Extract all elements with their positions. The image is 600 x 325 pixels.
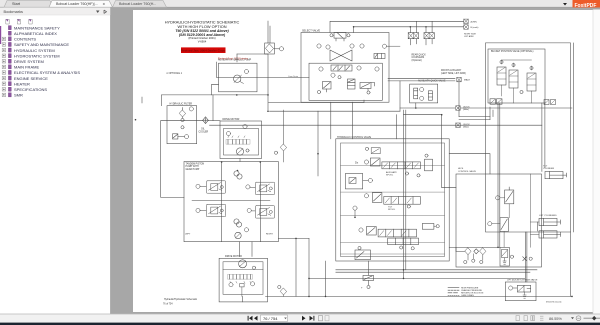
auxiliary spool xyxy=(382,162,421,169)
title block xyxy=(165,20,240,44)
svg-text:RIGHT SIDE: RIGHT SIDE xyxy=(464,33,476,35)
svg-text:(LEFT SIDE, LIFT ARM): (LEFT SIDE, LIFT ARM) xyxy=(441,72,466,75)
charge pump top xyxy=(234,171,239,176)
lift spool xyxy=(378,229,416,237)
rear quick coupler block 2 xyxy=(424,21,434,45)
right side lift arm couplers xyxy=(464,19,468,23)
bpv spool 2 xyxy=(509,70,518,88)
auxiliary hydraulic pump box xyxy=(219,63,258,92)
document background xyxy=(111,8,600,315)
pump circle P1 xyxy=(234,75,241,82)
gauges lower select xyxy=(319,67,323,71)
tilt spool label xyxy=(388,207,396,212)
svg-text:(Male): (Male) xyxy=(463,109,469,111)
svg-text:SAFETY AND MAINTENANCE: SAFETY AND MAINTENANCE xyxy=(14,42,69,47)
svg-text:GEAR PUMP: GEAR PUMP xyxy=(186,168,200,171)
svg-text:Bobcat Loader T60(HF)|...: Bobcat Loader T60(HF)|... xyxy=(56,2,98,6)
right icons xyxy=(516,316,543,321)
svg-text:FRONT AUXILIARY: FRONT AUXILIARY xyxy=(441,69,462,72)
wire top mid horizontal xyxy=(270,110,401,112)
tandem pump divider xyxy=(192,200,270,202)
svg-text:(Male): (Male) xyxy=(463,126,469,128)
select valve outer box xyxy=(301,33,389,103)
hcv bottom-left valve xyxy=(355,250,370,260)
drive motor gauges xyxy=(226,131,230,135)
wire pump out drop xyxy=(295,238,297,296)
lift spool right box xyxy=(422,224,434,230)
wire cooler junction vertical xyxy=(212,95,214,121)
gauge at top filter xyxy=(279,47,283,51)
coupler boxes top right xyxy=(544,100,556,105)
svg-text:AUXILIARY HYDRAULIC PUMP: AUXILIARY HYDRAULIC PUMP xyxy=(218,59,252,62)
svg-text:(Printed October 2001): (Printed October 2001) xyxy=(188,36,215,40)
svg-text:AUXILIARY QUICK VALVE: AUXILIARY QUICK VALVE xyxy=(418,79,446,82)
wire front aux pair xyxy=(388,77,455,79)
return filter bottom xyxy=(280,288,286,295)
hcv pilot gauge xyxy=(353,206,357,210)
hcv internal gallery lines xyxy=(341,165,445,254)
svg-text:TILT: TILT xyxy=(543,165,548,167)
svg-text:MAINTENANCE SAFETY: MAINTENANCE SAFETY xyxy=(14,25,60,30)
solenoid valve top xyxy=(330,33,350,42)
wire lower distribution xyxy=(309,277,525,279)
relief valve left xyxy=(317,82,331,94)
nav: first page xyxy=(248,316,258,321)
tilt cylinder label xyxy=(543,165,554,170)
dark bottom strip xyxy=(0,323,600,325)
svg-text:TANDEM PISTON: TANDEM PISTON xyxy=(186,162,205,165)
svg-text:Revised Jan. 2004 Dealer Copy: Revised Jan. 2004 Dealer Copy xyxy=(181,49,226,53)
wire hics left drop xyxy=(404,115,457,188)
selected-tool purple strip xyxy=(0,26,1,44)
svg-text:PUMP WITH: PUMP WITH xyxy=(186,166,199,168)
wire filter L return xyxy=(161,121,184,198)
svg-text:6904173 (10-01): 6904173 (10-01) xyxy=(546,301,562,303)
drive motor valve bank xyxy=(226,136,250,144)
drive motor circle xyxy=(236,148,243,155)
svg-text:AUXILIARY: AUXILIARY xyxy=(386,171,397,174)
charge relief valve xyxy=(500,247,509,266)
svg-text:REAR QUICK: REAR QUICK xyxy=(412,53,427,56)
hydrostatic filter symbol top xyxy=(265,43,275,54)
drive motor top box xyxy=(220,121,262,159)
red revision box xyxy=(181,47,226,53)
svg-text:COUPLERS: COUPLERS xyxy=(412,57,425,59)
hcv inner border xyxy=(341,143,445,257)
drive motor top inner box xyxy=(224,129,259,156)
drive motor bottom inner xyxy=(223,262,263,295)
wire bucket valve feeds xyxy=(497,103,499,247)
bucket position valve box xyxy=(488,49,545,103)
drive motor bottom box xyxy=(219,258,267,302)
svg-text:B (male): B (male) xyxy=(471,27,479,29)
svg-text:SELECT VALVE: SELECT VALVE xyxy=(302,29,320,32)
svg-text:CYLINDER: CYLINDER xyxy=(543,168,554,170)
tilt spool left actuator xyxy=(372,193,382,203)
bottom solenoid valve xyxy=(363,275,374,280)
svg-text:Start: Start xyxy=(12,2,21,6)
svg-text:LIFT (BUCKET) BYPASS VALVE: LIFT (BUCKET) BYPASS VALVE xyxy=(507,279,538,282)
svg-text:ALPHABETICAL INDEX: ALPHABETICAL INDEX xyxy=(14,31,57,36)
svg-text:HICS: HICS xyxy=(458,168,464,170)
wire top lift arm coupler A xyxy=(330,21,464,32)
check valve diamond small xyxy=(474,249,479,254)
pilot valve center xyxy=(348,79,356,89)
hcv top solenoid xyxy=(371,148,380,154)
bookmark items xyxy=(2,25,80,97)
gauges in select valve xyxy=(317,44,321,48)
tilt spool xyxy=(384,197,421,205)
bpv internal wires xyxy=(502,60,532,103)
select valve right spool xyxy=(374,54,385,59)
wire aux pump riser xyxy=(267,21,269,43)
svg-text:HYDRAULIC SYSTEM: HYDRAULIC SYSTEM xyxy=(14,48,55,53)
svg-text:V-6904: V-6904 xyxy=(198,40,207,44)
svg-text:LEFT: LEFT xyxy=(185,233,191,235)
wire right couplers horizontal xyxy=(210,124,542,126)
wire top lift arm coupler B xyxy=(354,27,464,33)
svg-text:SPECIFICATIONS: SPECIFICATIONS xyxy=(14,87,47,92)
tandem pump outer box xyxy=(184,162,278,242)
tab Bobcat 2 xyxy=(113,1,167,8)
svg-text:Bookmarks: Bookmarks xyxy=(4,9,24,14)
svg-text:ELECTRICAL SYSTEM & ANALYSIS: ELECTRICAL SYSTEM & ANALYSIS xyxy=(14,70,80,75)
svg-text:ENGINE SERVICE: ENGINE SERVICE xyxy=(14,76,48,81)
wire drive motor drop xyxy=(239,159,241,162)
svg-text:HEATER: HEATER xyxy=(14,81,30,86)
bypass valve body xyxy=(517,285,530,292)
front auxiliary label xyxy=(441,69,466,75)
wire lift bypass verticals xyxy=(524,232,526,282)
svg-text:76 of 754: 76 of 754 xyxy=(163,304,173,306)
wire pump column verticals xyxy=(221,162,223,242)
aux quick valve spool xyxy=(414,88,418,99)
check assembly wires xyxy=(449,247,500,260)
hydraulic control valve box xyxy=(336,139,449,261)
logo dropdown arrow xyxy=(563,3,567,6)
hydraulic filter box xyxy=(167,106,197,144)
tilt cylinder xyxy=(545,172,567,179)
hics valve 1 xyxy=(505,190,514,204)
svg-text:76 / 754: 76 / 754 xyxy=(263,316,278,321)
gauges bottom motor xyxy=(229,283,233,287)
lift cylinder 2 xyxy=(539,231,561,238)
aux quick valve spool 2 xyxy=(428,91,432,100)
right boundary box xyxy=(486,43,571,232)
FoxitPDF orange logo xyxy=(573,0,600,10)
svg-text:MAIN FRAME: MAIN FRAME xyxy=(14,65,39,70)
panel toolbar icons xyxy=(6,19,32,24)
bypass valve gauge xyxy=(509,286,513,290)
tab Start xyxy=(4,1,53,8)
wire hics link xyxy=(449,154,490,174)
footer text xyxy=(163,298,198,305)
rear quick couplers label xyxy=(412,53,427,61)
svg-text:(S/N 5129 20001 and Above): (S/N 5129 20001 and Above) xyxy=(179,33,226,37)
svg-text:Case Drain: Case Drain xyxy=(288,76,298,78)
check diamond right of motor xyxy=(280,144,286,151)
svg-text:LIFT ARM: LIFT ARM xyxy=(464,35,474,38)
wire hcv bottom verticals xyxy=(308,238,310,296)
male coupler front aux xyxy=(457,77,461,81)
svg-text:LIFT CYLINDERS: LIFT CYLINDERS xyxy=(539,215,557,217)
svg-text:×: × xyxy=(103,1,106,6)
wire pump out short xyxy=(269,102,365,104)
svg-text:CASE DRAIN: CASE DRAIN xyxy=(461,294,474,297)
oil cooler xyxy=(203,117,209,124)
svg-text:SPOOL: SPOOL xyxy=(388,209,396,211)
main wires xyxy=(142,21,573,302)
svg-text:✦ OPTIONAL 1: ✦ OPTIONAL 1 xyxy=(166,72,183,75)
rear quick coupler block 1 xyxy=(408,21,418,45)
white page xyxy=(133,10,593,312)
wire right border lower xyxy=(570,232,572,296)
select valve inner box xyxy=(309,63,382,100)
svg-text:CHARGE PRESSURE: CHARGE PRESSURE xyxy=(461,289,483,292)
bpv bottom boxes xyxy=(490,99,496,104)
legend text xyxy=(461,287,484,297)
wire filter feed xyxy=(141,97,143,103)
svg-text:DRIVE SYSTEM: DRIVE SYSTEM xyxy=(14,59,44,64)
wire select-to-hcv verticals xyxy=(330,102,332,139)
motor circle bottom xyxy=(239,260,247,268)
valve bank bottom xyxy=(228,275,253,284)
hics valve 2 xyxy=(500,218,508,232)
tab bar xyxy=(0,0,600,8)
hics internal wires xyxy=(504,174,539,247)
wire mid drop xyxy=(317,111,319,176)
svg-text:MALE: MALE xyxy=(464,79,470,82)
page num box xyxy=(261,315,288,321)
crossover lines xyxy=(330,50,352,61)
filter bypass box xyxy=(173,134,178,139)
relief valve right xyxy=(360,83,375,95)
svg-text:86.55%: 86.55% xyxy=(549,317,563,321)
svg-text:SMR: SMR xyxy=(14,93,23,98)
svg-text:Hydraulic/Hydrostatic Schemati: Hydraulic/Hydrostatic Schematic xyxy=(164,298,198,301)
auxiliary spool left box xyxy=(370,158,380,166)
gauge in aux pump box xyxy=(244,69,248,73)
aux quick valve gauges xyxy=(420,87,424,91)
wire aux pump jog xyxy=(211,85,218,95)
shuttle bottom motor xyxy=(240,284,244,287)
svg-text:COOLER: COOLER xyxy=(199,131,209,133)
check valve diamond 3 xyxy=(480,248,486,255)
svg-text:CONTROL VALVE: CONTROL VALVE xyxy=(458,170,476,173)
bpv spool 1 xyxy=(497,67,506,85)
bpv spool 3 xyxy=(527,73,536,91)
male coupler mid column 1 xyxy=(456,106,460,110)
panel header xyxy=(0,8,110,16)
right scroll strip xyxy=(593,10,600,315)
wire bottom drop links xyxy=(368,261,370,275)
filter diamond xyxy=(179,110,185,117)
wire lift cylinder stub xyxy=(536,222,538,231)
wire pump case line xyxy=(278,237,309,239)
svg-text:RIGHT: RIGHT xyxy=(266,233,273,235)
orifice symbol xyxy=(523,257,527,261)
spool valve select xyxy=(331,65,352,71)
svg-text:A (RH): A (RH) xyxy=(471,20,478,23)
hics control valve label xyxy=(458,168,476,173)
svg-text:(Optional): (Optional) xyxy=(412,59,422,62)
svg-text:Bobcat Loader T60(H...: Bobcat Loader T60(H... xyxy=(119,2,156,6)
pump unit 2 xyxy=(255,182,274,194)
svg-text:DRIVE MOTOR: DRIVE MOTOR xyxy=(225,255,242,258)
lift cylinder 1 xyxy=(539,218,561,225)
lift bypass valve box xyxy=(505,282,536,301)
svg-text:HYDRAULIC CONTROL VALVE: HYDRAULIC CONTROL VALVE xyxy=(337,136,371,139)
svg-text:HYDRAULIC FILTER: HYDRAULIC FILTER xyxy=(170,103,193,106)
oil cooler label xyxy=(199,129,209,134)
auxiliary spool label xyxy=(386,171,397,177)
wire bottom return pair xyxy=(336,269,537,271)
tandem pump label xyxy=(186,162,205,171)
svg-text:CONTENTS: CONTENTS xyxy=(14,37,36,42)
lift spool left actuator xyxy=(367,227,377,236)
svg-text:HYDROSTATIC SYSTEM: HYDROSTATIC SYSTEM xyxy=(14,53,60,58)
tab Bobcat active xyxy=(49,0,113,7)
pump unit 1 xyxy=(206,181,225,193)
wire case drain horizontal xyxy=(217,77,309,79)
legend dashes xyxy=(448,288,459,296)
auxiliary quick valve box xyxy=(410,84,438,103)
gear pump circle xyxy=(235,232,241,238)
auxiliary spool right actuator xyxy=(425,159,433,171)
hcv relief box left xyxy=(345,174,362,189)
wire bottom main return xyxy=(266,295,573,297)
hics control valve box xyxy=(456,174,542,267)
charge pump bottom xyxy=(234,219,239,224)
svg-text:BUCKET POSITION VALVE (OPTIONA: BUCKET POSITION VALVE (OPTIONAL) xyxy=(491,50,534,53)
filter gauges xyxy=(181,118,184,121)
wire oil cooler line xyxy=(161,120,203,122)
wire tilt cylinder feeds xyxy=(541,103,543,172)
pump unit 3 xyxy=(206,204,225,216)
svg-text:SPOOL: SPOOL xyxy=(386,174,394,176)
lift check spool xyxy=(388,238,419,245)
male coupler mid column 2 xyxy=(456,123,460,127)
check valve diamond large xyxy=(465,248,471,255)
wire center bus pair xyxy=(403,110,405,278)
pump unit 4 xyxy=(255,206,274,218)
bpv gauges xyxy=(500,60,503,63)
